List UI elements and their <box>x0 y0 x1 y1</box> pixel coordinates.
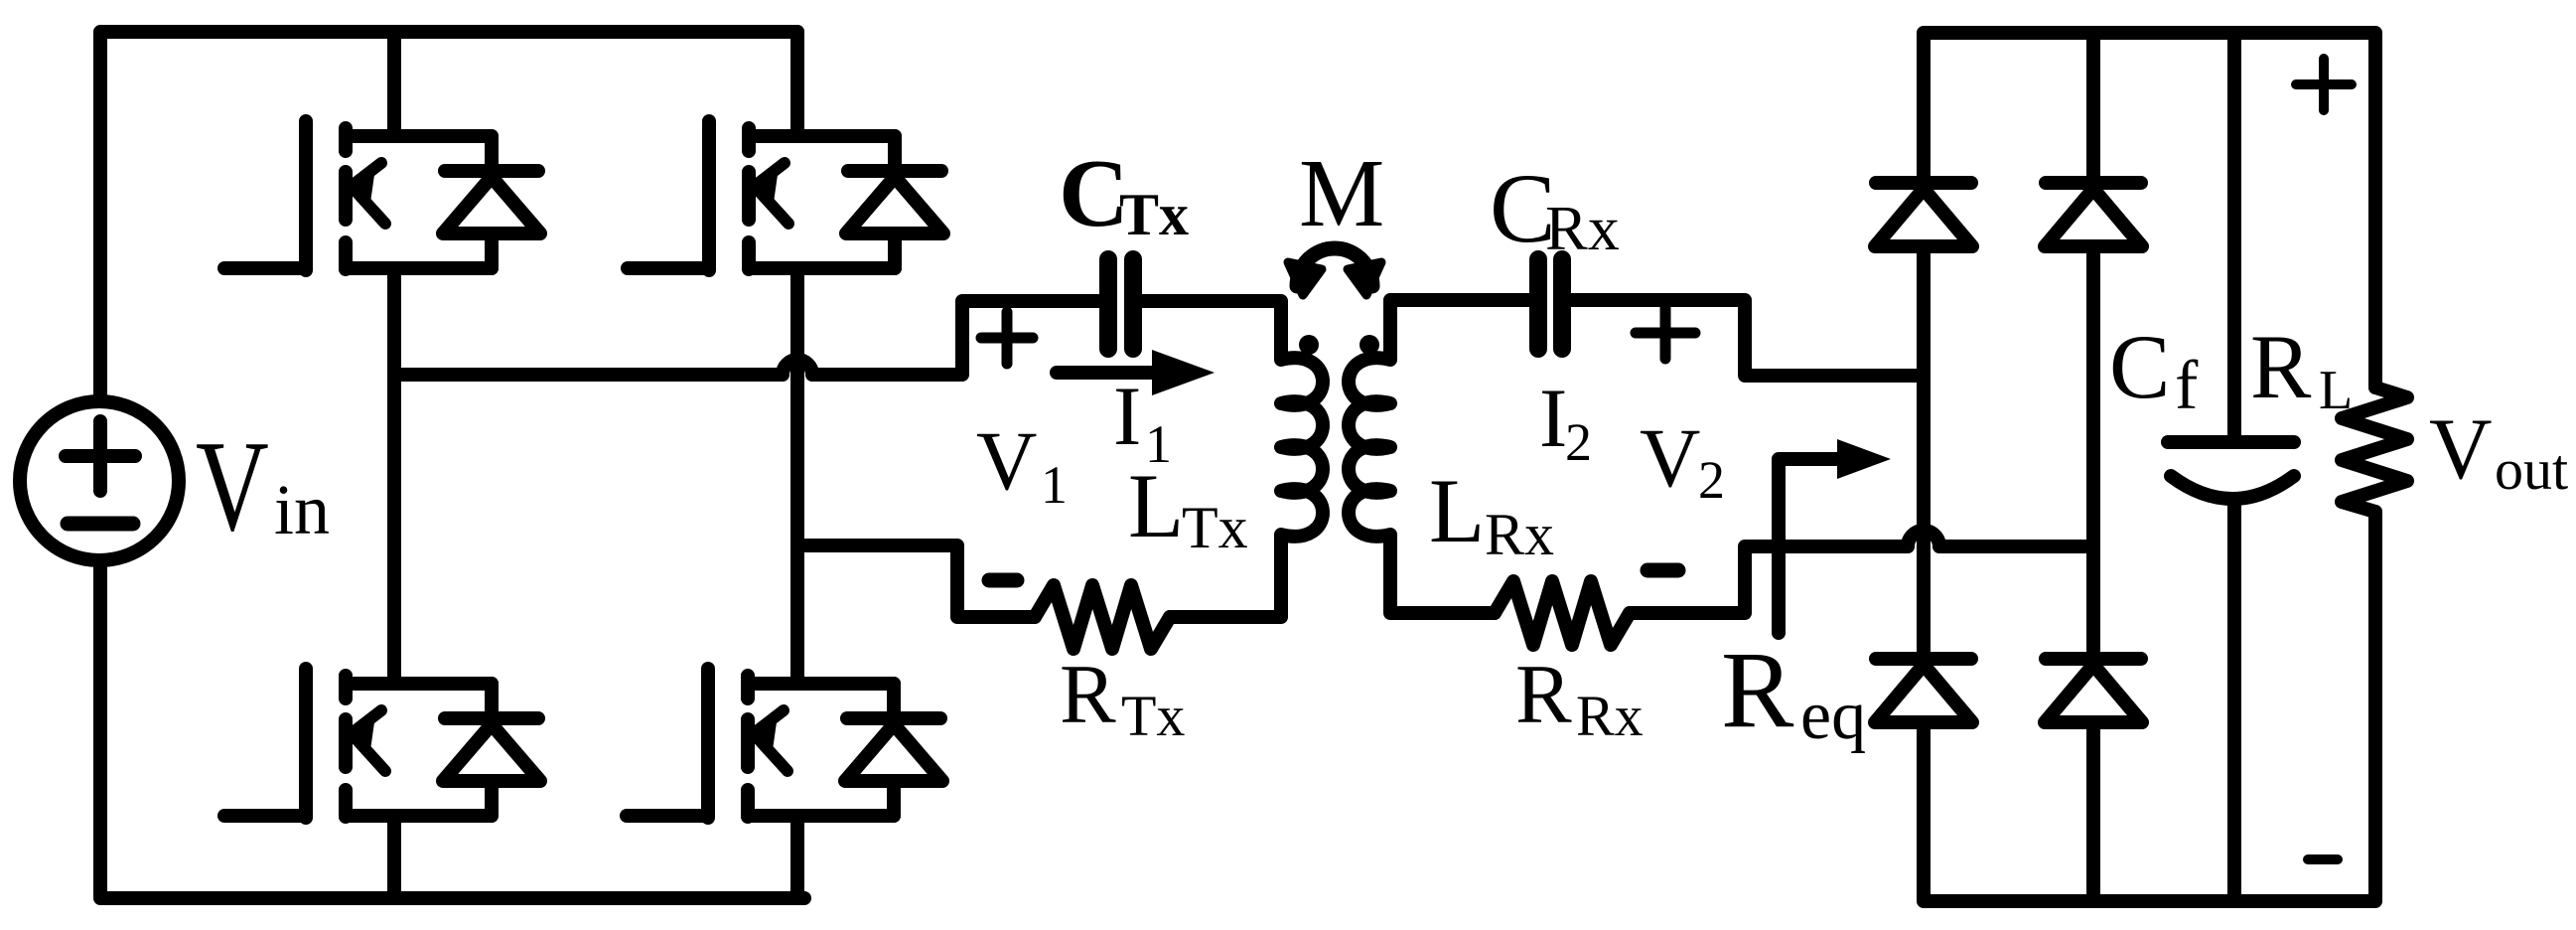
capacitor CRx <box>1538 259 1562 349</box>
wire rectifier rail1 middle <box>1917 246 1931 653</box>
svg-text:V: V <box>2429 401 2493 498</box>
diode D2 <box>2045 183 2142 246</box>
diode D4 <box>2045 659 2142 722</box>
svg-text:f: f <box>2175 348 2199 424</box>
label Vout <box>2429 401 2568 502</box>
diode body of Q4 <box>845 684 942 816</box>
label LRx <box>1429 460 1554 567</box>
resistor RRx <box>1495 581 1630 645</box>
label RL <box>2250 316 2353 421</box>
wire left rail lower and bottom rail <box>100 560 804 898</box>
diode body of Q2 <box>846 136 943 268</box>
svg-text:Rx: Rx <box>1576 684 1644 748</box>
wire rectifier rail1 bottom and bottom rail <box>1924 512 2375 901</box>
label V1 <box>976 414 1068 515</box>
mutual inductance arrow M <box>1288 248 1381 295</box>
arrow I1 <box>1057 350 1215 395</box>
wire left rail upper and top rail <box>100 32 797 401</box>
svg-text:L: L <box>1429 460 1485 561</box>
transistor Q3 <box>224 669 492 818</box>
diode D3 <box>1875 659 1972 722</box>
svg-text:I: I <box>1113 370 1141 463</box>
svg-text:R: R <box>2250 316 2312 417</box>
wire Cf leg bottom <box>2227 503 2241 901</box>
label LTx <box>1128 455 1248 560</box>
svg-text:1: 1 <box>1145 414 1172 474</box>
label plus V1 <box>981 312 1033 364</box>
wire node B to tank minus <box>797 545 1035 617</box>
wire hop over rectifier rail <box>1908 531 1939 546</box>
label plus Vout <box>2296 59 2352 110</box>
svg-text:V: V <box>1640 411 1700 505</box>
label RRx <box>1515 648 1644 748</box>
wire leg A segments <box>387 32 401 898</box>
transistor Q1 <box>224 121 492 270</box>
node dot primary <box>1299 335 1319 355</box>
wire CRx to V2 plus and rectifier <box>1571 300 1924 376</box>
svg-text:Rx: Rx <box>1545 193 1620 263</box>
label CTx <box>1059 140 1189 247</box>
inductor LRx winding and wires <box>1349 300 1529 613</box>
svg-text:eq: eq <box>1800 678 1866 754</box>
svg-text:1: 1 <box>1041 455 1068 515</box>
svg-text:C: C <box>2109 316 2170 417</box>
wire rectifier top rail and corners <box>1924 33 2375 387</box>
node dot secondary <box>1360 335 1379 355</box>
arrow Req <box>1779 439 1891 633</box>
wire Cf leg top <box>2227 33 2241 435</box>
label M <box>1299 140 1384 246</box>
wire leg B segments <box>790 32 804 898</box>
wire hop over leg B <box>783 360 812 375</box>
transistor Q4 <box>627 669 894 818</box>
diode D1 <box>1875 183 1972 246</box>
svg-text:M: M <box>1299 140 1384 246</box>
svg-text:Rx: Rx <box>1485 502 1554 567</box>
label minus V1 <box>989 573 1017 588</box>
label CRx <box>1490 153 1620 263</box>
svg-text:I: I <box>1539 372 1567 465</box>
label minus V2 <box>1647 563 1678 578</box>
label I2 <box>1539 372 1592 472</box>
svg-text:V: V <box>196 414 269 558</box>
diode body of Q3 <box>443 684 540 816</box>
wire node A to tank plus <box>394 368 783 382</box>
svg-text:V: V <box>976 414 1037 508</box>
label Cf <box>2109 316 2199 424</box>
capacitor CTx <box>1108 259 1133 349</box>
svg-text:Tx: Tx <box>1119 182 1189 247</box>
wire RRx to V2 minus terminal <box>1630 546 1908 613</box>
svg-text:Tx: Tx <box>1121 684 1185 748</box>
svg-text:R: R <box>1721 629 1794 750</box>
svg-text:in: in <box>274 470 330 549</box>
wire rectifier rail2 top <box>2086 33 2100 177</box>
label Vin <box>196 414 330 558</box>
capacitor Cf <box>2168 442 2294 499</box>
svg-text:Tx: Tx <box>1182 495 1248 560</box>
wire to V1 plus terminal <box>812 301 1099 375</box>
resistor RTx <box>1035 585 1170 649</box>
label Req <box>1721 629 1866 754</box>
svg-text:R: R <box>1515 648 1572 741</box>
resistor RL <box>2342 387 2407 512</box>
svg-text:2: 2 <box>1565 412 1592 472</box>
label RTx <box>1060 648 1185 748</box>
svg-text:L: L <box>2319 360 2353 421</box>
diode body of Q1 <box>443 136 540 268</box>
transistor Q2 <box>628 121 895 270</box>
wire hop to rectifier leg 2 <box>1939 540 2093 553</box>
source Vin <box>20 401 179 560</box>
label V2 <box>1640 411 1725 510</box>
svg-text:2: 2 <box>1698 450 1725 510</box>
label minus Vout <box>2308 854 2338 864</box>
wire top to LTx and inductor LTx winding <box>1142 301 1323 617</box>
svg-text:R: R <box>1060 648 1116 741</box>
wire rectifier rail2 middle <box>2086 246 2100 653</box>
wire rectifier rail2 bottom <box>2086 722 2100 901</box>
svg-text:out: out <box>2495 437 2568 502</box>
label plus V2 <box>1636 307 1695 359</box>
label I1 <box>1113 370 1172 474</box>
